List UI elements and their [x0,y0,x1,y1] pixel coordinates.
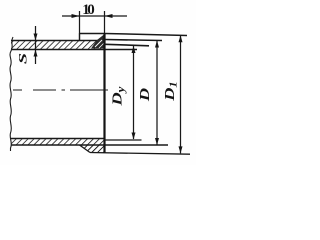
extension line: socket inner top [105,44,149,46]
socket outer top edge [80,33,105,35]
socket bottom slant edge [80,145,91,153]
socket step left edge [79,34,81,42]
socket outer bottom edge (extends right to D1 dim) [90,153,190,155]
Dy top arrowhead [132,46,136,53]
pipe bottom wall inner edge line [11,138,105,140]
dimension 10: right arrowhead [105,14,113,18]
Dy bottom arrowhead [132,133,136,140]
socket bottom wall hatched section [80,145,105,153]
svg-text:D: D [137,88,153,103]
extension line: pipe inner bottom to Dy [105,139,142,141]
pipe top wall hatched section [11,41,105,50]
dimension line Dy [133,46,135,139]
extension line: socket outer top to D1 [105,34,187,36]
D1 top arrowhead [179,35,183,42]
dimension S: upper arrowhead [34,34,38,41]
dimension S: lower arrowhead [34,50,38,57]
pipe top wall inner edge line (extends right to Dy dim) [11,49,137,51]
pipe end face [103,33,105,153]
centerline [13,89,108,91]
dimension 10: right extension line [104,11,106,33]
dimension 10: left extension line [79,11,81,34]
D1 bottom arrowhead [179,146,183,153]
D top arrowhead [155,41,159,48]
pipe bottom wall outer edge line (extends right to D dim) [11,144,168,146]
svg-text:S: S [16,53,29,64]
dimension line D1 [180,35,182,153]
dimension 10: dimension line [62,15,127,17]
dimension line D [156,41,158,146]
break line (left wavy) [10,37,13,151]
extension line: pipe outer top to D [105,40,162,41]
dimension 10: left arrowhead [72,14,80,18]
dimension S: dimension line [35,26,37,64]
pipe bottom wall hatched section [11,139,105,146]
pipe top wall outer edge line [11,40,105,42]
socket dense dark wedge [91,35,104,49]
D bottom arrowhead [155,138,159,145]
